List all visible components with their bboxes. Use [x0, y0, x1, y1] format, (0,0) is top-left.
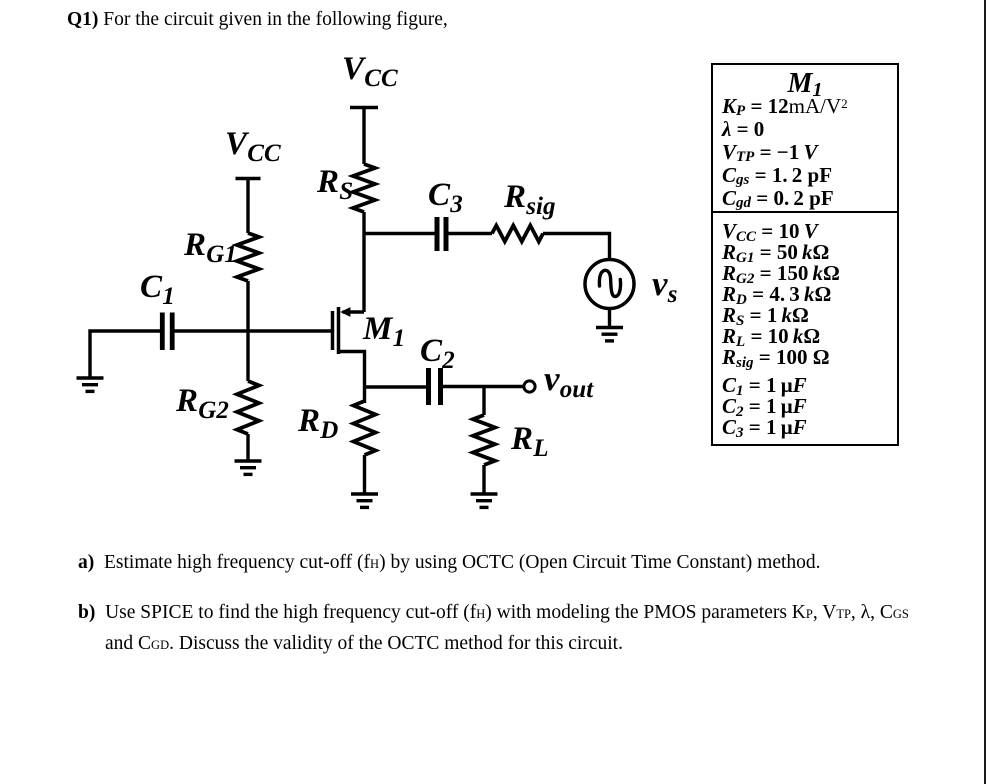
label vs [652, 266, 677, 301]
wire C2 to vout terminal [443, 385, 523, 388]
resistor RS [353, 164, 375, 212]
resistor RD [354, 401, 376, 455]
source vs circle [585, 260, 634, 309]
label C2 [420, 335, 455, 368]
wire transistor drain down [339, 352, 365, 404]
resistor RL [473, 415, 495, 465]
arrowhead (PMOS source arrow) [340, 307, 350, 317]
parameter box [711, 63, 899, 446]
ground (below RL) [471, 494, 498, 507]
sine symbol inside vs [599, 270, 620, 296]
page right edge line [984, 0, 986, 784]
parameter box section circuit values [713, 213, 897, 444]
wire Rsig to source vs [543, 234, 610, 260]
parameter box section M1 device parameters [713, 65, 897, 213]
transistor M1 gate bar [331, 311, 335, 350]
label RG1 [184, 229, 237, 262]
ground (below RD) [351, 494, 378, 507]
label C1 [140, 271, 175, 304]
ground (below RG2) [235, 461, 262, 474]
wire node to C3 [364, 232, 437, 235]
resistor Rsig [492, 226, 543, 242]
label M1 [363, 313, 405, 346]
resistor RG1 [237, 233, 259, 281]
wire RG1 to RG2 crossing gate wire [246, 281, 249, 381]
title text [67, 5, 448, 35]
capacitor C1 [162, 313, 172, 351]
wire RS bottom to transistor source column [362, 212, 365, 312]
ground (below vs) [596, 328, 623, 341]
wire vs to ground [608, 309, 611, 327]
question text a) [78, 548, 821, 579]
wire C1 left with corner [90, 331, 160, 377]
wire drain node to C2 [365, 385, 427, 388]
label VCC (top) [342, 53, 397, 86]
power VCC supply T (above RG1) [236, 179, 261, 234]
resistor RG2 [237, 381, 259, 434]
label C3 [428, 179, 463, 212]
transistor M1 channel bar [337, 307, 341, 354]
wire RD to ground [363, 455, 366, 493]
question text b) [78, 598, 909, 660]
ground (left of C1) [77, 378, 104, 391]
wire RL drop [482, 387, 485, 416]
label RD [298, 405, 338, 438]
label Rsig [504, 181, 555, 214]
wire gate from C1 to gate bar [174, 329, 331, 332]
label RL [511, 423, 548, 456]
label vout [544, 361, 593, 396]
wire RL to ground [482, 465, 485, 493]
wire C3 to Rsig [446, 232, 492, 235]
power VCC supply T (top, above RS) [350, 108, 378, 165]
capacitor C2 [429, 368, 441, 405]
wire RG2 to ground [246, 434, 249, 460]
label VCC (above RG1) [225, 128, 280, 161]
capacitor C3 [437, 217, 446, 251]
wire transistor source horizontal with arrow [343, 310, 365, 313]
terminal vout circle [524, 381, 535, 392]
label RS [317, 166, 353, 199]
label RG2 [176, 385, 229, 418]
